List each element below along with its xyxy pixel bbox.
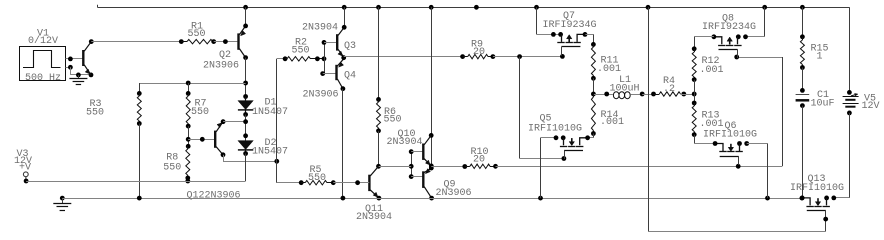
svg-text:Q3: Q3 <box>344 41 356 52</box>
label R9 value 20 <box>473 47 485 58</box>
wire: Q10/Q9 base tie <box>409 149 414 179</box>
label V5 <box>864 93 876 104</box>
label Q4 type 2N3906 <box>303 89 339 100</box>
wire: Q5 gate branch down <box>520 57 567 161</box>
label Q6 <box>725 121 737 132</box>
label V3 value 12V <box>14 156 32 167</box>
svg-text:IRFI1010G: IRFI1010G <box>528 124 582 135</box>
wire: Q10 base <box>411 151 423 153</box>
wire: +V top rail <box>97 5 849 8</box>
label Q5 type IRFI1010G <box>528 124 582 135</box>
label Q2 <box>219 50 231 61</box>
wire: V1 plus terminal to Q1 base <box>66 57 84 62</box>
wire: R6 bottom to drive node <box>376 131 381 169</box>
label Q10 type 2N3904 <box>387 137 423 148</box>
resistor R5 550 <box>301 180 335 185</box>
label R2 value 550 <box>292 46 310 57</box>
wire: Q2 emitter riser to top rail <box>243 5 248 28</box>
svg-text:1: 1 <box>817 51 823 62</box>
svg-text:10uF: 10uF <box>811 99 835 110</box>
svg-text:+V: +V <box>19 163 31 174</box>
label Q3 type 2N3904 <box>302 23 338 34</box>
svg-text:20: 20 <box>473 155 485 166</box>
wire: R2 feed riser down to R5 branch <box>276 59 278 183</box>
svg-text:1N5407: 1N5407 <box>252 107 288 118</box>
wire: +V bottom rail <box>26 181 246 183</box>
label R9 <box>471 40 483 51</box>
label R3 value 550 <box>86 108 104 119</box>
node: rail junction 5 <box>646 5 651 10</box>
node: Q10/Q9 emitter output <box>429 164 434 171</box>
label Q3 <box>344 41 356 52</box>
label V3 <box>17 149 29 160</box>
label Q10 <box>398 129 416 140</box>
svg-text:20: 20 <box>473 47 485 58</box>
label R8 value 550 <box>163 163 181 174</box>
label C1 value 10uF <box>811 99 835 110</box>
wire: rail riser to Q8 source <box>746 7 765 37</box>
wire: ground rail <box>62 196 802 201</box>
wire: Q8 drain to R12 <box>692 37 714 52</box>
wire: Q13 gate from top rail riser <box>648 7 828 231</box>
mosfet Q7 IRFI9234G <box>551 32 587 56</box>
wire: R5 to Q11 base <box>333 180 369 185</box>
resistor R3 550 <box>137 83 142 126</box>
wire: R9 to Q7 gate <box>491 54 565 59</box>
label R10 <box>471 147 489 158</box>
svg-text:550: 550 <box>191 107 209 118</box>
label R1 value 550 <box>188 29 206 40</box>
svg-text:2N3904: 2N3904 <box>356 212 392 223</box>
svg-text:IRFI1010G: IRFI1010G <box>790 183 844 194</box>
svg-text:Q4: Q4 <box>344 71 356 82</box>
label Q13 type IRFI1010G <box>790 183 844 194</box>
voltage source V5 12V battery <box>843 90 859 115</box>
label R15 <box>811 44 829 55</box>
label Q7 <box>563 11 575 22</box>
label R8 <box>166 152 178 163</box>
node: Q9 collector at ground rail <box>429 196 434 201</box>
label C1 <box>817 90 829 101</box>
svg-text:500 Hz: 500 Hz <box>25 73 61 84</box>
svg-text:.2: .2 <box>663 84 675 95</box>
label Q9 type 2N3906 <box>436 188 472 199</box>
wire: Q6 source to ground rail <box>747 144 768 199</box>
wire: R1 to Q2 base <box>211 39 237 44</box>
label R3 <box>90 99 102 110</box>
wire: emitter node to R9 <box>344 54 465 59</box>
label R12 <box>702 56 720 67</box>
voltage source V1 pulse generator box <box>20 47 66 81</box>
label Q8 <box>722 14 734 25</box>
wire: R3 bottom to ground rail <box>139 124 141 199</box>
label Q7 type IRFI9234G <box>543 20 597 31</box>
node: Q1 collector junction <box>89 39 94 44</box>
resistor R10 20 <box>465 164 496 168</box>
node: rail junction 4 <box>534 5 539 10</box>
wire: Q1 collector to R1 <box>91 39 183 44</box>
svg-text:100uH: 100uH <box>610 84 640 95</box>
label R13 <box>702 111 720 122</box>
capacitor C1 10uF <box>796 95 810 109</box>
svg-text:550: 550 <box>384 114 402 125</box>
wire: R2 branch to R5 <box>277 180 304 185</box>
wire: Q4 collector down to ground rail <box>341 86 346 198</box>
resistor R13 .001 <box>692 103 697 137</box>
label R4 <box>663 76 675 87</box>
label Q5 <box>540 114 552 125</box>
label V1 amplitude 0/12V <box>28 35 58 47</box>
resistor R11 .001 <box>591 44 596 80</box>
label Q4 <box>344 71 356 82</box>
label Q6 type IRFI1010G <box>703 129 757 140</box>
svg-text:0/12V: 0/12V <box>28 35 58 47</box>
wire: Q12 base wire <box>188 137 215 142</box>
wire: R7 bottom to Q12 base node <box>186 126 191 149</box>
transistor Q10 2N3904 <box>423 135 431 166</box>
label R5 value 550 <box>308 173 326 184</box>
wire: Q2 collector down to diode chain <box>243 55 248 96</box>
mosfet Q5 IRFI1010G <box>554 135 590 159</box>
wire: rail riser to R15 <box>800 7 805 39</box>
node: rail junction 3 <box>474 5 479 10</box>
transistor Q4 2N3906 <box>337 59 344 89</box>
wire: D2 cathode down to +V rail corner <box>245 154 247 182</box>
wire: R3/R7/Q2 node horizontal <box>139 81 245 86</box>
wire: R4 to R12/R13 node <box>681 92 697 97</box>
wire: Q12 emitter to diode junction <box>221 119 246 124</box>
wire: R14 bottom to Q5 drain <box>588 134 594 138</box>
label R7 <box>195 98 207 109</box>
svg-text:550: 550 <box>308 173 326 184</box>
wire: top rail to V5 battery (right edge drop) <box>849 7 851 92</box>
label Q11 <box>365 204 383 215</box>
label D1 type 1N5407 <box>252 107 288 118</box>
wire: R15 to C1 <box>800 68 805 93</box>
label V3 node +V <box>19 163 31 174</box>
svg-text:Q122N3906: Q122N3906 <box>187 191 241 202</box>
wire: Q4 base <box>323 73 336 75</box>
svg-text:.001: .001 <box>600 117 624 128</box>
svg-text:2N3906: 2N3906 <box>436 188 472 199</box>
resistor R12 .001 <box>692 49 697 82</box>
label R14 value .001 <box>600 117 624 128</box>
svg-text:2N3906: 2N3906 <box>203 60 239 71</box>
svg-text:12V: 12V <box>862 101 880 112</box>
label Q8 type IRFI9234G <box>702 22 756 33</box>
wire: Q9 base <box>411 176 423 178</box>
node: Q3/Q4 emitter output <box>341 55 346 60</box>
label R11 value .001 <box>597 64 621 75</box>
resistor R15 1 <box>800 37 805 70</box>
label R5 <box>310 165 322 176</box>
wire: rail riser to Q10 collector <box>429 7 434 166</box>
wire: C1 bottom to ground rail end <box>800 106 805 201</box>
resistor R14 .001 <box>591 94 596 136</box>
resistor R8 550 <box>185 146 190 183</box>
svg-text:550: 550 <box>163 163 181 174</box>
transistor Q12 2N3906 <box>215 122 223 155</box>
label Q12 2N3906 <box>187 191 241 202</box>
svg-text:1N5407: 1N5407 <box>252 146 288 157</box>
node: rail junction 7 <box>800 5 805 10</box>
svg-text:.001: .001 <box>597 64 621 75</box>
node: rail junction 6 <box>762 5 767 10</box>
label D2 type 1N5407 <box>252 146 288 157</box>
label R10 value 20 <box>473 155 485 166</box>
inductor L1 100uH <box>593 92 644 99</box>
resistor R2 550 <box>277 56 327 61</box>
ground symbol at V1 <box>69 75 87 85</box>
svg-text:2N3906: 2N3906 <box>303 89 339 100</box>
label R2 <box>295 38 307 49</box>
wire: rail riser to R6 <box>376 7 381 102</box>
label R4 value .2 <box>663 84 675 95</box>
resistor R1 550 <box>181 39 213 43</box>
svg-text:550: 550 <box>292 46 310 57</box>
resistor R6 550 <box>376 99 381 133</box>
wire: V5 negative lead down to Q13 drain <box>834 113 850 198</box>
label R15 value 1 <box>817 51 823 62</box>
svg-text:550: 550 <box>188 29 206 40</box>
svg-text:IRFI9234G: IRFI9234G <box>702 22 756 33</box>
diode D2 1N5407 <box>238 141 253 156</box>
wire: R10 to Q6 gate and Q8 gate <box>493 164 782 169</box>
wire: R11 to L1 node <box>591 78 596 96</box>
label R14 <box>601 110 619 121</box>
svg-text:.001: .001 <box>700 119 724 130</box>
svg-text:IRFI1010G: IRFI1010G <box>703 129 757 140</box>
svg-text:550: 550 <box>86 108 104 119</box>
label R7 value 550 <box>191 107 209 118</box>
label Q2 type 2N3906 <box>203 60 239 71</box>
wire: R12 to R13 <box>692 80 697 106</box>
wire: Q8 gate riser <box>734 55 782 167</box>
label D1 <box>265 98 277 109</box>
wire: rail to Q7 source <box>537 7 562 34</box>
wire: D1 to D2 <box>243 115 248 141</box>
label D2 <box>265 138 277 149</box>
transistor Q11 2N3904 <box>369 166 379 198</box>
label V1 frequency 500 Hz <box>25 73 61 84</box>
mosfet Q6 IRFI1010G <box>713 141 749 165</box>
svg-text:.001: .001 <box>700 65 724 76</box>
label Q11 type 2N3904 <box>356 212 392 223</box>
node: rail junction 2 <box>429 5 434 10</box>
label R6 <box>384 107 396 118</box>
wire: Q5 source lead <box>541 138 557 199</box>
transistor Q3 2N3904 <box>337 27 344 57</box>
wire: Q7 drain to R11 <box>585 34 595 46</box>
label V5 value 12V <box>862 101 880 112</box>
wire: Q10/Q9 emitters to R10 <box>431 164 467 169</box>
transistor Q2 2N3906 <box>239 26 246 58</box>
svg-text:2N3904: 2N3904 <box>387 137 423 148</box>
transistor Q9 2N3906 <box>423 168 431 198</box>
label R12 value .001 <box>700 65 724 76</box>
label L1 <box>619 75 631 86</box>
voltage source node V3 +V <box>23 172 28 184</box>
wire: V1 minus terminal to ground <box>66 65 94 77</box>
resistor R4 .2 <box>654 92 687 97</box>
wire: Q3 base <box>324 42 337 44</box>
resistor R9 20 <box>463 54 493 58</box>
mosfet Q13 IRFI1010G <box>800 196 836 220</box>
wire: R13 bottom to Q6 drain <box>694 135 715 144</box>
label R11 <box>601 56 619 67</box>
node: Q11 emitter at ground rail <box>377 196 382 201</box>
mosfet Q8 IRFI9234G <box>712 34 748 58</box>
label Q9 <box>444 180 456 191</box>
wire: L1 to R4 <box>642 92 659 97</box>
ground symbol main <box>53 196 71 211</box>
label L1 value 100uH <box>610 84 640 95</box>
wire: drive node to Q10/Q9 bases <box>379 166 412 168</box>
resistor R7 550 <box>186 83 191 129</box>
label R6 value 550 <box>384 114 402 125</box>
wire: Q12 collector to R2 branch <box>221 152 280 163</box>
diode D1 1N5407 <box>238 94 253 117</box>
svg-text:2N3904: 2N3904 <box>302 23 338 34</box>
label R1 <box>191 21 203 32</box>
label V1 <box>37 28 49 39</box>
node: rail junction <box>376 5 381 10</box>
wire: Q3 collector riser to top rail <box>342 5 347 30</box>
wire: Q3/Q4 base tie <box>320 40 326 76</box>
transistor Q1 <box>83 42 91 75</box>
label R13 value .001 <box>700 119 724 130</box>
label Q13 <box>808 174 826 185</box>
svg-text:IRFI9234G: IRFI9234G <box>543 20 597 31</box>
